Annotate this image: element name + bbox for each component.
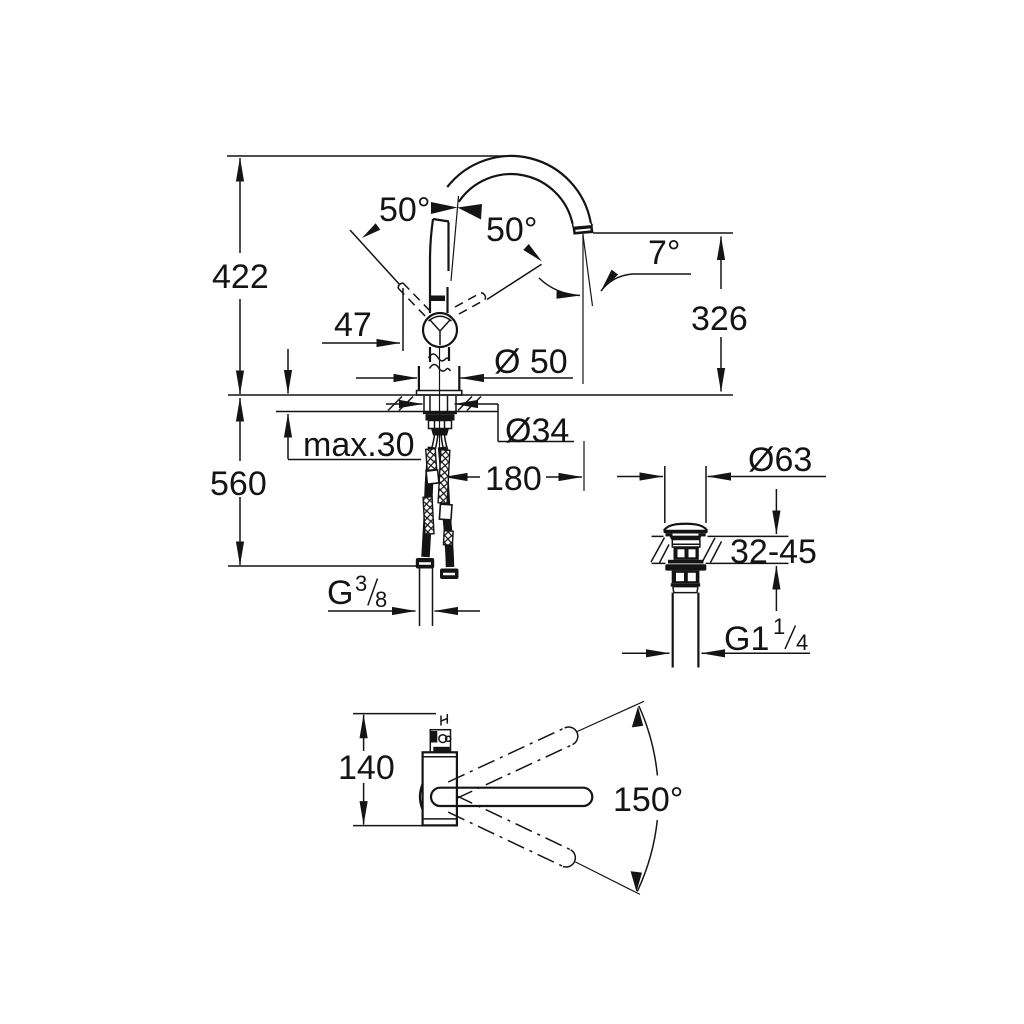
svg-text:50°: 50° <box>486 211 537 249</box>
svg-text:50°: 50° <box>379 191 430 229</box>
svg-text:32-45: 32-45 <box>730 533 817 571</box>
svg-text:G: G <box>327 574 353 612</box>
svg-text:3: 3 <box>355 571 367 596</box>
svg-text:G1: G1 <box>724 620 769 658</box>
svg-text:8: 8 <box>375 587 387 612</box>
svg-text:Ø34: Ø34 <box>505 412 569 450</box>
svg-text:1: 1 <box>773 614 785 639</box>
svg-text:7°: 7° <box>648 234 681 272</box>
svg-text:Ø63: Ø63 <box>748 441 812 479</box>
svg-text:560: 560 <box>210 465 267 503</box>
svg-text:4: 4 <box>796 630 808 655</box>
svg-text:140: 140 <box>338 749 395 787</box>
svg-text:Ø 50: Ø 50 <box>494 343 568 381</box>
svg-text:47: 47 <box>334 306 372 344</box>
svg-text:326: 326 <box>691 300 748 338</box>
svg-text:180: 180 <box>485 460 542 498</box>
svg-text:422: 422 <box>212 258 269 296</box>
svg-text:max.30: max.30 <box>303 426 415 464</box>
svg-text:150°: 150° <box>613 781 683 819</box>
